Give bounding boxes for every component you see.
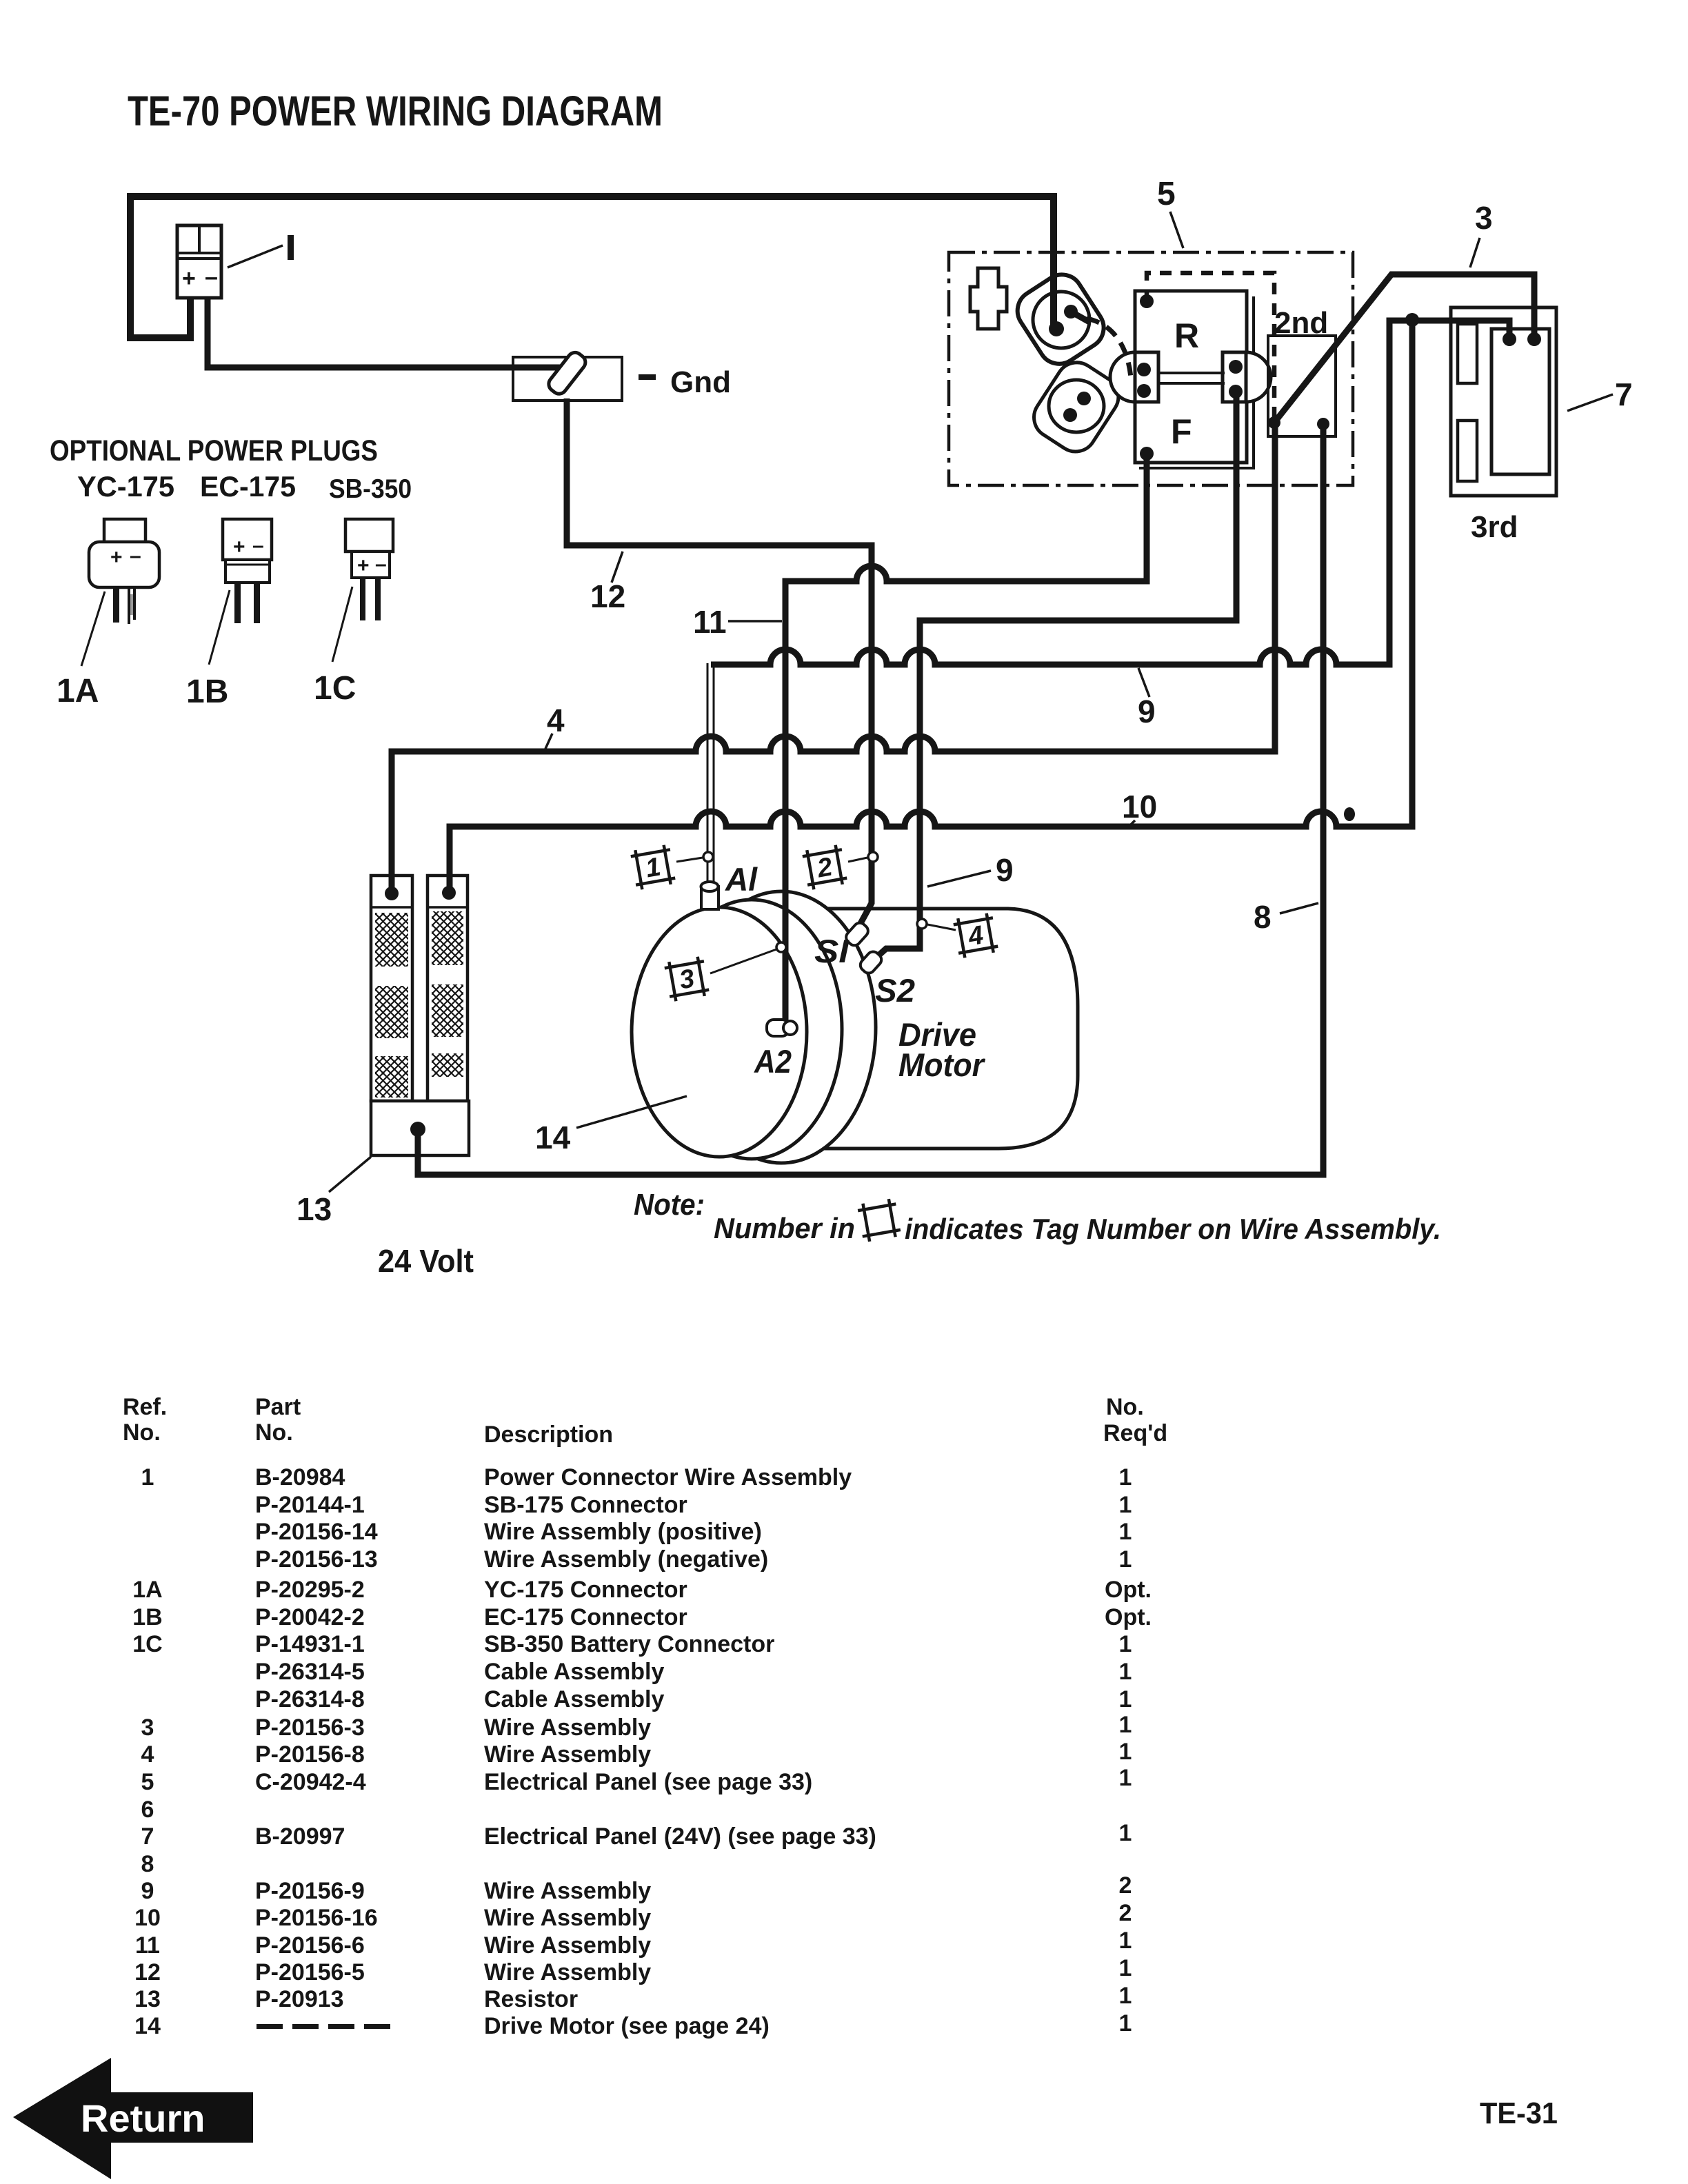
svg-text:Gnd: Gnd	[670, 365, 731, 399]
svg-text:1: 1	[1119, 1659, 1132, 1685]
svg-text:YC-175: YC-175	[77, 470, 174, 503]
drive motor body 14	[800, 909, 1078, 1149]
svg-text:5: 5	[1157, 176, 1176, 212]
tag box 1	[630, 844, 676, 890]
svg-text:No.: No.	[123, 1419, 161, 1446]
svg-text:10: 10	[134, 1905, 161, 1931]
panel 7 slot top	[1458, 324, 1477, 383]
svg-text:12: 12	[590, 578, 625, 614]
svg-text:indicates Tag Number on Wire A: indicates Tag Number on Wire Assembly.	[905, 1213, 1441, 1245]
svg-text:Description: Description	[484, 1422, 613, 1448]
svg-text:10: 10	[1122, 789, 1157, 825]
svg-text:P-20144-1: P-20144-1	[255, 1492, 365, 1518]
node: left connector contacts	[1137, 363, 1151, 376]
svg-text:Wire Assembly: Wire Assembly	[484, 1878, 651, 1904]
svg-text:No.: No.	[1106, 1394, 1144, 1420]
resistor 13 right strip	[428, 876, 468, 1101]
F-R switch double-struck edge	[1139, 296, 1254, 468]
svg-text:Note:: Note:	[634, 1188, 705, 1222]
svg-text:3: 3	[141, 1715, 154, 1741]
svg-text:2: 2	[1119, 1872, 1132, 1899]
svg-text:P-20156-5: P-20156-5	[255, 1959, 365, 1985]
plug SB-350 (1C)	[345, 519, 393, 552]
svg-text:Power Connector Wire Assembly: Power Connector Wire Assembly	[484, 1464, 852, 1490]
svg-text:1: 1	[1119, 1712, 1132, 1738]
svg-text:B-20997: B-20997	[255, 1823, 345, 1850]
left terminal connector of F-R block	[1110, 352, 1135, 402]
svg-text:Ref.: Ref.	[123, 1394, 167, 1420]
svg-text:1: 1	[1119, 1546, 1132, 1573]
svg-text:8: 8	[1254, 899, 1272, 935]
svg-text:12: 12	[134, 1959, 161, 1985]
svg-text:1: 1	[1119, 1464, 1132, 1490]
leader 1B	[209, 590, 230, 665]
svg-text:Wire Assembly (negative): Wire Assembly (negative)	[484, 1546, 768, 1573]
svg-text:Drive Motor (see page 24): Drive Motor (see page 24)	[484, 2013, 770, 2039]
ground strap clamp	[545, 350, 588, 397]
svg-text:–: –	[252, 534, 264, 557]
resistor 13 base box	[371, 1101, 469, 1155]
svg-text:P-20913: P-20913	[255, 1986, 344, 2012]
svg-text:1: 1	[1119, 1983, 1132, 2009]
electrical panel 7 outer box	[1451, 307, 1556, 496]
svg-text:2nd: 2nd	[1274, 306, 1328, 340]
svg-text:1: 1	[1119, 1492, 1132, 1518]
right terminal connector of F-R block	[1246, 352, 1271, 402]
svg-text:Opt.: Opt.	[1105, 1577, 1152, 1603]
svg-text:1: 1	[1119, 1820, 1132, 1846]
node: panel 7 terminals	[1503, 332, 1516, 346]
svg-text:13: 13	[134, 1986, 161, 2012]
2nd speed box	[1268, 336, 1336, 436]
solenoid top (panel 5)	[1009, 267, 1112, 372]
svg-text:8: 8	[141, 1851, 154, 1877]
svg-text:11: 11	[693, 604, 727, 640]
node: right connector contacts	[1229, 360, 1243, 374]
parts table	[123, 1394, 1167, 1448]
svg-text:P-20156-8: P-20156-8	[255, 1741, 365, 1768]
svg-text:1: 1	[1119, 1765, 1132, 1791]
svg-text:+: +	[110, 546, 123, 569]
svg-text:5: 5	[141, 1769, 154, 1795]
svg-text:–: –	[375, 553, 387, 576]
leader 1A	[81, 591, 105, 666]
svg-text:Number in: Number in	[714, 1212, 855, 1244]
node: solenoid K2 contacts	[1077, 392, 1091, 405]
label 1 (battery connector)	[228, 245, 283, 267]
svg-text:OPTIONAL POWER PLUGS: OPTIONAL POWER PLUGS	[50, 434, 378, 467]
svg-text:1: 1	[1119, 1928, 1132, 1954]
svg-text:Wire Assembly (positive): Wire Assembly (positive)	[484, 1519, 762, 1545]
svg-text:P-26314-8: P-26314-8	[255, 1686, 365, 1712]
svg-text:YC-175 Connector: YC-175 Connector	[484, 1577, 687, 1603]
svg-text:P-20156-13: P-20156-13	[255, 1546, 378, 1573]
svg-text:9: 9	[1138, 694, 1156, 729]
wire 11: F terminal to A2	[785, 454, 1147, 1023]
svg-text:1: 1	[141, 1464, 154, 1490]
svg-text:P-20042-2: P-20042-2	[255, 1604, 365, 1630]
svg-text:14: 14	[535, 1120, 571, 1155]
motor ring inner	[661, 900, 842, 1159]
svg-text:4: 4	[141, 1741, 154, 1768]
wire 10: panel 7 junction to resistor	[450, 320, 1412, 893]
plug EC-175 (1B)	[223, 519, 272, 560]
svg-text:+: +	[233, 536, 245, 558]
svg-text:1B: 1B	[186, 674, 228, 710]
dashed link: solenoid to connector	[1087, 318, 1131, 378]
svg-text:–: –	[130, 545, 141, 567]
svg-text:P-20156-9: P-20156-9	[255, 1878, 365, 1904]
svg-text:P-26314-5: P-26314-5	[255, 1659, 365, 1685]
row 14 dashes	[257, 2024, 390, 2029]
tag box 2	[801, 844, 847, 890]
svg-text:B-20984: B-20984	[255, 1464, 345, 1490]
motor front face	[632, 907, 807, 1157]
return arrow	[13, 2058, 253, 2179]
svg-text:A2: A2	[754, 1043, 792, 1080]
wire: battery negative to ground strap	[208, 298, 561, 367]
svg-text:24 Volt: 24 Volt	[378, 1243, 474, 1279]
label - Gnd	[639, 374, 656, 380]
svg-text:Part: Part	[255, 1394, 301, 1420]
svg-text:P-20295-2: P-20295-2	[255, 1577, 365, 1603]
svg-text:1: 1	[1119, 1739, 1132, 1765]
svg-text:Return: Return	[81, 2096, 205, 2140]
svg-text:Electrical Panel (see page 33): Electrical Panel (see page 33)	[484, 1769, 812, 1795]
wire 3: 2nd box to panel 7	[1274, 274, 1534, 423]
ground strap box	[513, 357, 622, 401]
svg-text:7: 7	[141, 1823, 154, 1850]
svg-text:P-14931-1: P-14931-1	[255, 1631, 365, 1657]
svg-text:SB-175 Connector: SB-175 Connector	[484, 1492, 687, 1518]
terminal S2 lug	[858, 949, 884, 976]
svg-text:P-20156-3: P-20156-3	[255, 1715, 365, 1741]
svg-text:SB-350 Battery Connector: SB-350 Battery Connector	[484, 1631, 774, 1657]
wire 1 thin pair to A1	[707, 663, 714, 884]
svg-text:R: R	[1174, 316, 1199, 355]
node: wire 10 junction	[1405, 313, 1419, 327]
svg-text:4: 4	[547, 702, 565, 738]
svg-text:+: +	[182, 265, 196, 292]
svg-text:Wire Assembly: Wire Assembly	[484, 1932, 651, 1959]
svg-text:1: 1	[1119, 1955, 1132, 1981]
plug YC-175 (1A)	[104, 519, 145, 545]
svg-text:11: 11	[135, 1932, 160, 1959]
svg-text:7: 7	[1615, 376, 1633, 412]
terminal A2	[767, 1020, 789, 1036]
panel 7 slot bottom	[1458, 421, 1477, 481]
node: 2nd box left terminal	[1268, 416, 1280, 429]
tag box 4	[952, 912, 998, 958]
svg-text:Cable Assembly: Cable Assembly	[484, 1686, 664, 1712]
svg-text:Electrical Panel (24V) (see pa: Electrical Panel (24V) (see page 33)	[484, 1823, 876, 1850]
svg-text:Resistor: Resistor	[484, 1986, 578, 2012]
svg-text:Wire Assembly: Wire Assembly	[484, 1715, 651, 1741]
motor ring outer	[687, 891, 876, 1163]
terminal A1 stub	[701, 887, 719, 909]
svg-text:SI: SI	[814, 933, 850, 969]
svg-text:1C: 1C	[314, 670, 356, 707]
svg-text:P-20156-16: P-20156-16	[255, 1905, 378, 1931]
electrical panel 5 (dash-dot border)	[949, 252, 1353, 485]
wire 12: ground to S1	[567, 398, 872, 926]
svg-text:1: 1	[1119, 1519, 1132, 1545]
wire 4: resistor to 2nd box	[392, 423, 1275, 893]
svg-text:Motor: Motor	[898, 1046, 986, 1083]
node: solenoid K1 coil terminal	[1049, 321, 1064, 336]
svg-text:1: 1	[1119, 2010, 1132, 2036]
ink artifact	[1344, 807, 1355, 821]
svg-text:Req'd: Req'd	[1103, 1420, 1167, 1446]
svg-text:2: 2	[1119, 1900, 1132, 1926]
node: solenoid K1 upper contact	[1064, 305, 1078, 318]
panel 7 inner plate	[1491, 329, 1549, 474]
svg-text:TE-31: TE-31	[1480, 2096, 1558, 2130]
wire 8: 2nd box to resistor base	[418, 424, 1323, 1175]
svg-text:Cable Assembly: Cable Assembly	[484, 1659, 664, 1685]
svg-text:SB-350: SB-350	[329, 474, 412, 504]
svg-text:1: 1	[1119, 1631, 1132, 1657]
node: R terminal of F-R switch	[1140, 294, 1154, 308]
svg-text:C-20942-4: C-20942-4	[255, 1769, 366, 1795]
wire: battery positive loop to solenoid	[130, 196, 1054, 338]
battery connector 1 box	[177, 225, 221, 298]
node: 2nd box right terminal	[1317, 418, 1329, 430]
svg-text:+: +	[357, 554, 370, 577]
svg-text:9: 9	[141, 1878, 154, 1904]
svg-text:F: F	[1171, 412, 1192, 451]
leader 1C	[332, 587, 352, 662]
svg-text:14: 14	[134, 2013, 161, 2039]
svg-text:6: 6	[141, 1797, 154, 1823]
F-R switch block U1	[1135, 291, 1247, 463]
svg-text:Al: Al	[725, 861, 758, 898]
terminal S1 lug	[843, 920, 870, 948]
solenoid tail	[1071, 312, 1088, 321]
dashed wire: R terminal to 2nd box	[1147, 273, 1274, 423]
solenoid bottom (panel 5)	[1026, 354, 1126, 459]
svg-text:P-20156-6: P-20156-6	[255, 1932, 365, 1959]
svg-text:S2: S2	[875, 972, 915, 1009]
svg-text:1A: 1A	[57, 673, 99, 709]
svg-text:EC-175 Connector: EC-175 Connector	[484, 1604, 687, 1630]
svg-text:1B: 1B	[132, 1604, 162, 1630]
resistor 13 left strip	[371, 876, 412, 1101]
svg-text:9: 9	[996, 852, 1014, 888]
svg-text:13: 13	[297, 1191, 332, 1227]
svg-text:Opt.: Opt.	[1105, 1604, 1152, 1630]
svg-text:1: 1	[1119, 1686, 1132, 1712]
tag box 3	[663, 956, 710, 1002]
wire 9 upper: panel 7 to A1	[711, 321, 1509, 665]
svg-text:3rd: 3rd	[1471, 510, 1518, 544]
keyway cross cutout	[970, 268, 1007, 329]
svg-text:No.: No.	[255, 1419, 293, 1446]
svg-text:3: 3	[1475, 200, 1493, 236]
svg-text:P-20156-14: P-20156-14	[255, 1519, 378, 1545]
node: resistor base terminal	[410, 1122, 425, 1137]
svg-text:TE-70 POWER WIRING DIAGRAM: TE-70 POWER WIRING DIAGRAM	[128, 88, 663, 134]
svg-text:–: –	[205, 264, 218, 290]
svg-text:1C: 1C	[132, 1631, 162, 1657]
svg-text:Wire Assembly: Wire Assembly	[484, 1959, 651, 1985]
svg-text:1A: 1A	[132, 1577, 162, 1603]
node: F terminal of F-R switch	[1140, 447, 1154, 461]
svg-text:EC-175: EC-175	[200, 470, 296, 503]
bus bar links	[1158, 373, 1225, 383]
svg-text:Wire Assembly: Wire Assembly	[484, 1741, 651, 1768]
wire: F-R right connector to S2	[872, 392, 1236, 962]
node: resistor top terminals	[385, 887, 399, 900]
svg-text:Wire Assembly: Wire Assembly	[484, 1905, 651, 1931]
